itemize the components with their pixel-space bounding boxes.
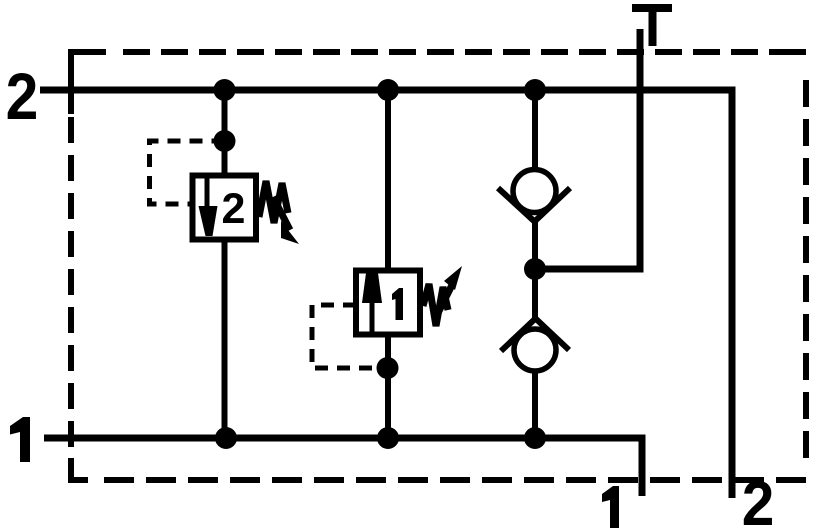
check valve lower: seat — [501, 319, 569, 352]
relief valve 1 pilot line (dashed) — [312, 305, 387, 368]
wire: valve 2 branch lower — [222, 239, 228, 438]
port label 1 (bottom left) — [10, 417, 30, 462]
junction node: bus2 / check branch — [524, 79, 546, 101]
port label 1 (bottom right) — [602, 486, 619, 528]
relief valve 1 label "1" — [392, 288, 403, 320]
relief valve 2 flow arrow (down) — [199, 177, 218, 236]
junction node: bus1 / valve1 — [377, 427, 399, 449]
wire: valve 2 branch upper — [222, 90, 228, 176]
relief valve 2 spring — [259, 181, 288, 223]
check valve upper: seat — [498, 188, 570, 222]
junction node: bus2 / valve1 — [377, 79, 399, 101]
junction node: valve 1 pilot tap — [377, 357, 399, 379]
wire: check valve branch lower — [532, 372, 538, 438]
junction node: bus1 / valve2 — [215, 427, 237, 449]
relief valve 2 pilot line (dashed) — [150, 141, 225, 204]
wire: port 2 bus (top) and right drop — [40, 90, 732, 498]
relief valve 1 flow arrow (up) — [362, 273, 382, 333]
wire: valve 1 branch lower — [385, 334, 391, 438]
wire: between check valves — [532, 219, 538, 320]
relief valve 2 body — [193, 176, 257, 240]
wire: port 1 bus (bottom) and right drop — [44, 438, 642, 496]
junction node: bus1 / check branch — [524, 427, 546, 449]
svg-text:2: 2 — [6, 60, 39, 134]
svg-text:2: 2 — [742, 468, 775, 531]
wire: check valve branch upper — [532, 90, 538, 168]
wire: valve 1 branch upper — [385, 90, 391, 271]
relief valve 2 adjustment arrow — [273, 197, 299, 244]
tank symbol T — [632, 8, 672, 46]
relief valve 1 spring — [423, 284, 448, 326]
svg-text:2: 2 — [222, 185, 246, 233]
check valve upper: ball — [513, 170, 556, 213]
relief valve 1 adjustment arrow — [437, 266, 462, 315]
junction node: valve 2 pilot tap — [214, 130, 236, 152]
junction node: between check valves — [524, 258, 546, 280]
wire: tank line — [535, 29, 640, 269]
check valve lower: ball — [514, 329, 556, 371]
enclosure dashed envelope — [71, 52, 806, 480]
relief valve 1 body — [356, 271, 420, 335]
junction node: bus2 / valve2 — [214, 79, 236, 101]
